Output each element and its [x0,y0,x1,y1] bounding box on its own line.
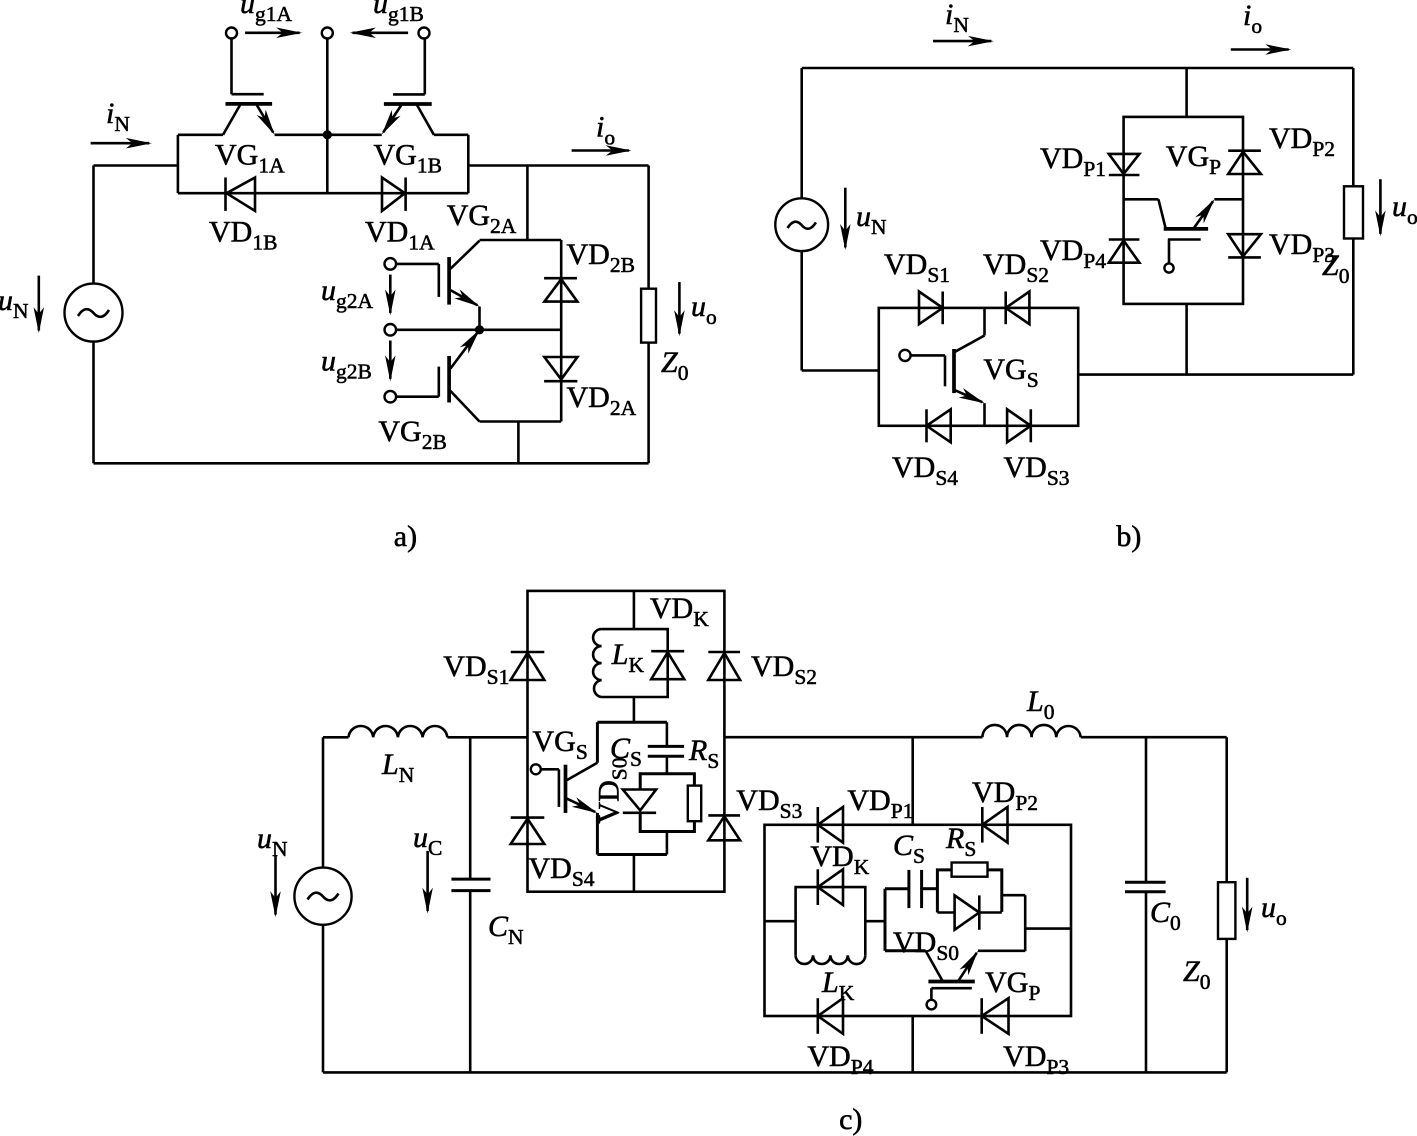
box LK S-side top right bottom edges [602,629,668,697]
diode VDS1 c [511,652,545,680]
arrow uC [426,851,429,911]
svg-text:VD2B: VD2B [567,238,635,277]
svg-text:VGP: VGP [985,966,1040,1005]
svg-text:VG2B: VG2B [378,415,446,454]
wire: P box bottom to output wire [1185,304,1188,375]
load Z0 a [641,289,656,343]
transistor VG1B [383,39,434,135]
svg-text:c): c) [839,1103,862,1136]
wire: P snubber top lead [885,887,909,890]
svg-text:uo: uo [691,290,717,329]
wire: left vertical lower b [800,251,803,370]
diode VDK c S-side [651,651,684,679]
wire: C0 branch lower [1145,892,1148,1073]
box P snubber left edge [884,889,887,951]
diode VDP2 c [982,807,1007,843]
wire: left vertical lower c [322,925,325,1073]
box VG1 bottom edge [178,192,468,195]
transistor VG1A [223,39,273,135]
svg-text:io: io [596,111,615,150]
svg-text:VG1B: VG1B [374,139,442,178]
load Z0 b [1344,186,1363,238]
svg-text:VDS1: VDS1 [443,650,509,689]
box VGP b [1124,117,1243,304]
box VGS b [879,308,1078,426]
svg-text:ug2A: ug2A [321,274,374,313]
wire: mid line to emitter node [396,328,561,331]
box VG1 left edge [177,135,180,193]
svg-text:iN: iN [945,0,969,37]
wire: left vertical upper c [322,737,325,867]
box S big c [528,591,725,892]
diode VDS2 b [1006,292,1030,325]
terminal circle ug1A [226,28,237,39]
wire: P box left connector [765,920,796,923]
arrow uo b [1379,179,1382,234]
svg-text:VG2A: VG2A [447,199,517,238]
diode VDP3 c [982,998,1009,1034]
terminal circle ug1B [419,28,430,39]
svg-text:L0: L0 [1026,685,1054,724]
box parallel RS VDS0 P-side [937,870,1001,913]
svg-text:VDS3: VDS3 [1004,451,1070,490]
diode VDS2 c [708,652,740,680]
wire: left horizontal from source branch to VG1 box [94,164,178,167]
arrow ug2A [389,275,392,313]
arrow uN c [274,855,277,914]
arrow uN a [37,276,40,331]
svg-text:b): b) [1116,520,1141,553]
arrow ug1B [353,31,409,34]
box VG2 right edge [560,240,563,422]
svg-text:Z0: Z0 [661,346,688,385]
wire: emitter line P c [978,949,1025,952]
svg-text:a): a) [394,520,417,553]
diode VDP4 c [818,998,843,1034]
inductor L0 [982,725,1080,737]
svg-text:VGS: VGS [533,725,588,764]
svg-text:iN: iN [106,97,130,136]
arrow io a [572,149,630,152]
node dot emitter junction [475,325,484,334]
svg-text:VGP: VGP [1166,140,1221,179]
transistor VGS b [899,308,984,426]
svg-text:uN: uN [856,200,887,239]
svg-text:uo: uo [1261,891,1287,930]
arrow ug1A [245,31,300,34]
diode VDK P-side [818,869,843,905]
terminal circle ug2A top [385,258,397,270]
diode VD2B [544,278,577,301]
svg-text:uN: uN [0,284,29,323]
wire: top rail b [802,67,1354,70]
svg-text:VDS4: VDS4 [529,852,595,891]
box inner RS VDS0 c [640,774,694,832]
inductor LK P-side [796,955,866,964]
box snubber S top edge [597,721,667,724]
svg-text:VDS1: VDS1 [884,248,950,287]
capacitor CN [451,879,490,891]
diode VDP4 b [1109,240,1140,263]
svg-text:VD1A: VD1A [365,216,435,255]
wire: CN branch upper [469,737,472,879]
arrow iN a [91,142,150,145]
svg-text:LK: LK [821,966,855,1005]
diode VDS3 b [1007,409,1031,442]
wire: S box output to right [1078,373,1353,376]
source uN circle c [294,868,351,925]
wire: RS out down link [1002,894,1025,897]
svg-text:RS: RS [945,822,976,861]
wire: inner box to snubber bottom [666,832,669,855]
arrow ug2B [389,341,392,379]
svg-text:uN: uN [257,822,288,861]
arrow io b [1231,48,1289,51]
diode VDS1 b [919,292,943,325]
svg-text:VDK: VDK [650,592,709,631]
capacitor C0 [1125,882,1166,892]
box snubber S left edge lower [596,813,599,855]
svg-text:uo: uo [1392,190,1417,229]
box LK P-side [796,887,866,955]
source uN circle a [65,284,123,342]
wire: mid vertical from gate terminal to box bottom [326,39,329,194]
terminal circle ug2B bottom [385,391,397,403]
diode VDP3 b [1228,234,1261,257]
svg-text:CN: CN [488,910,524,949]
terminal circle ug2 mid [385,324,397,336]
wire: vertical link P out [1024,895,1027,951]
wire: link to P box right edge [1025,927,1071,930]
svg-text:ug2B: ug2B [321,345,372,384]
diode VDS0 P-side [937,895,1001,929]
arrow iN b [933,40,991,43]
capacitor CS c S-side [648,746,684,756]
wire: cap to parallel box P [922,887,938,890]
svg-text:ug1B: ug1B [373,0,424,26]
box VG2 top edge [480,239,562,242]
svg-text:Z0: Z0 [1322,249,1349,288]
svg-text:io: io [1243,0,1262,38]
box P c [765,825,1072,1016]
wire: right branch vertical lower [647,343,650,464]
wire: right rail after L0 [1081,736,1227,739]
arrow uo c [1246,878,1249,930]
diode VDP2 b [1228,151,1261,174]
wire: Z0 branch lower c [1225,939,1228,1073]
wire: cap to inner box [666,756,669,773]
wire: bottom rail c [323,1071,1227,1074]
wire: mid vertical big box top to LK box [633,591,636,629]
transistor VGP c [926,951,977,1010]
wire: right rail from big box [724,736,982,739]
svg-text:VGS: VGS [983,353,1038,392]
wire: LK to P snubber [865,920,885,923]
inductor LN [349,726,448,737]
svg-text:C0: C0 [1150,896,1181,935]
diode VDS3 c [708,815,740,840]
resistor RS c S-side [688,786,701,822]
wire: bottom rail a [94,462,649,465]
arrow uN b [844,188,847,248]
arrow uo a [678,282,681,334]
wire: P stub bottom c [911,1016,914,1072]
svg-text:VDS0: VDS0 [893,926,959,965]
svg-text:VDP1: VDP1 [1040,142,1106,181]
box snubber S left edge upper [596,722,599,763]
wire: left vertical upper [92,166,95,284]
diode VDS4 c [511,818,545,844]
terminal circle mid [322,28,333,39]
svg-text:ug1A: ug1A [240,0,293,26]
svg-text:VDS2: VDS2 [751,650,817,689]
transistor VG2A [396,241,479,330]
inductor LK c S-side [593,629,602,697]
load Z0 c [1218,882,1235,939]
source uN circle b [775,198,828,251]
wire: mid vertical top to P box [1185,68,1188,117]
wire: top rail to big box c [447,736,527,739]
capacitor CS P-side [909,870,922,908]
wire: Z0 branch upper c [1225,737,1228,882]
wire: right horizontal to load branch [468,164,648,167]
diode VDS4 b [927,409,951,442]
svg-text:VDP2: VDP2 [1269,122,1335,161]
svg-text:VDP1: VDP1 [847,784,913,823]
svg-text:Z0: Z0 [1183,955,1210,994]
transistor VGP b [1124,199,1243,272]
svg-text:RS: RS [688,734,719,773]
wire: into S box [802,369,879,372]
diode VDP1 c [818,807,843,843]
wire: stub to VG2 box top [526,166,529,241]
transistor VG2B [396,332,479,422]
box VG1 right edge [467,135,470,193]
wire: right vertical upper b [1352,68,1355,186]
svg-text:VDS3: VDS3 [736,784,802,823]
wire: left vertical lower [92,342,95,464]
svg-text:VDP4: VDP4 [1040,234,1106,273]
wire: top rail left segment c [323,736,349,739]
wire: left vertical upper b [800,68,803,198]
svg-text:VDK: VDK [810,840,869,879]
svg-text:VG1A: VG1A [215,139,285,178]
svg-text:LK: LK [611,638,645,677]
wire: C0 branch upper [1145,737,1148,882]
resistor RS P-side [952,863,988,877]
box VG2 bottom edge [480,420,562,423]
wire: snubber right top [666,722,669,746]
wire: P snubber bottom edge [885,949,926,952]
wire: snubber bottom to big box bottom [633,855,636,892]
box VG1 top edge segments [178,134,468,137]
wire: right vertical lower b [1352,239,1355,375]
svg-text:CS: CS [893,829,925,868]
node dot top mid [323,130,332,139]
wire: stub from VG2 box bottom [517,422,520,464]
box snubber S bottom edge [597,853,667,856]
diode VDS0 c S-side [623,790,656,813]
diode VD2A [544,357,577,381]
wire: right branch vertical upper [647,166,650,289]
svg-text:VDS4: VDS4 [892,451,958,490]
diode VD1B [226,178,256,211]
wire: CN branch lower [469,891,472,1073]
diode VD1A [382,178,406,211]
diode VDP1 b [1109,154,1140,175]
svg-text:VD1B: VD1B [209,216,277,255]
svg-text:LN: LN [381,748,415,787]
wire: P stub top c [911,737,914,825]
svg-text:VD2A: VD2A [567,381,637,420]
wire: LK box to snubber box [633,697,636,722]
transistor VGS c [531,763,598,813]
